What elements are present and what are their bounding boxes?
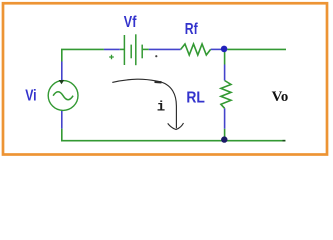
svg-text:Vi: Vi bbox=[25, 88, 36, 105]
svg-text:Vo: Vo bbox=[272, 89, 289, 105]
svg-text:Rf: Rf bbox=[185, 21, 198, 38]
svg-text:i: i bbox=[157, 99, 165, 115]
svg-text:RL: RL bbox=[186, 89, 205, 106]
svg-text:Vf: Vf bbox=[124, 14, 137, 31]
